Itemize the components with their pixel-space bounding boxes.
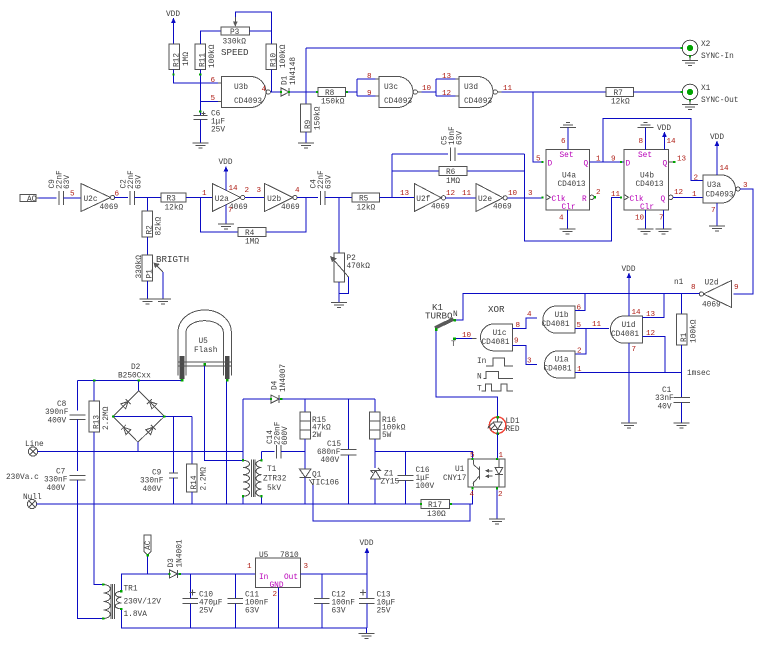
capacitor C13 xyxy=(359,574,396,628)
svg-text:CD4081: CD4081 xyxy=(611,331,639,339)
svg-text:U2e: U2e xyxy=(478,196,492,204)
potentiometer P2 (rheostat) xyxy=(330,253,370,282)
feedback resistor R4 loop wire xyxy=(200,198,306,233)
ground (U2a) xyxy=(218,224,234,229)
svg-text:1μF: 1μF xyxy=(416,475,430,483)
svg-text:C1: C1 xyxy=(662,387,672,395)
svg-text:14: 14 xyxy=(632,309,642,317)
wire to X2 xyxy=(306,47,682,49)
power flag VDD (U3a pin14) xyxy=(710,134,724,175)
svg-text:T: T xyxy=(451,341,456,349)
capacitor C10 xyxy=(183,574,223,628)
waveform legend N xyxy=(477,372,513,382)
zener Z1 xyxy=(371,452,400,505)
svg-text:R13: R13 xyxy=(94,415,102,429)
capacitor C12 xyxy=(314,574,355,628)
svg-text:Set: Set xyxy=(638,152,652,160)
svg-text:150kΩ: 150kΩ xyxy=(321,99,345,107)
connector X2 SYNC-In xyxy=(681,40,734,61)
potentiometer P3 xyxy=(221,17,250,47)
svg-text:470kΩ: 470kΩ xyxy=(347,263,371,271)
wire bridge bottom to Line rail xyxy=(137,442,139,451)
ground (U3a) xyxy=(709,226,725,231)
svg-text:4069: 4069 xyxy=(281,204,300,212)
svg-text:D2: D2 xyxy=(131,364,141,372)
svg-text:5kV: 5kV xyxy=(267,485,281,493)
svg-text:R1: R1 xyxy=(681,332,689,342)
net tag AC (vertical) xyxy=(144,535,153,574)
svg-text:C7: C7 xyxy=(56,469,66,477)
wire U1c pin8 to U1b out xyxy=(512,318,537,329)
svg-text:1MΩ: 1MΩ xyxy=(183,52,191,66)
resistor R5 xyxy=(352,193,380,213)
ground (U4a Clr) xyxy=(560,229,576,234)
ground (C1) xyxy=(674,423,690,428)
svg-text:CD4093: CD4093 xyxy=(464,98,492,106)
capacitor C9 (22nF input) xyxy=(49,170,72,205)
svg-text:Set: Set xyxy=(560,152,574,160)
svg-text:100kΩ: 100kΩ xyxy=(209,44,217,68)
svg-text:230Va.c: 230Va.c xyxy=(6,474,39,482)
svg-text:U4b: U4b xyxy=(640,173,654,181)
svg-text:6: 6 xyxy=(577,305,582,313)
ground above U4a Set (inverted) xyxy=(560,123,576,150)
svg-text:6: 6 xyxy=(211,77,216,85)
transformer T1 xyxy=(243,460,287,498)
svg-text:14: 14 xyxy=(667,138,677,146)
svg-text:Z1: Z1 xyxy=(384,471,394,479)
wire D3 to U5 regulator input xyxy=(178,573,256,575)
wire U2c out to C2 xyxy=(115,197,128,199)
svg-text:7: 7 xyxy=(632,346,637,354)
wire P3 right terminal xyxy=(250,30,272,32)
green pin dots (misc) xyxy=(93,74,622,620)
wire P2 bottom / wiper to ground xyxy=(339,277,349,303)
svg-text:TIC106: TIC106 xyxy=(311,480,339,488)
svg-text:2W: 2W xyxy=(312,432,322,440)
potentiometer P1 xyxy=(136,255,163,281)
svg-text:13: 13 xyxy=(677,156,687,164)
wire C6 to ground xyxy=(199,120,201,144)
svg-text:ZTR32: ZTR32 xyxy=(263,476,287,484)
svg-text:LD1: LD1 xyxy=(506,418,520,426)
svg-text:10μF: 10μF xyxy=(377,600,396,608)
svg-text:VDD: VDD xyxy=(657,125,671,133)
svg-text:330nF: 330nF xyxy=(140,478,164,486)
svg-text:33nF: 33nF xyxy=(655,395,674,403)
svg-text:6: 6 xyxy=(561,138,566,146)
wire U1c pin9 to U1a out xyxy=(512,346,537,365)
svg-text:12: 12 xyxy=(674,189,684,197)
wire P2 column xyxy=(338,198,340,254)
svg-text:3: 3 xyxy=(304,563,309,571)
terminal Line xyxy=(25,441,44,456)
nand gate U3d xyxy=(456,77,502,108)
svg-text:14: 14 xyxy=(229,185,239,193)
resistor R3 xyxy=(161,193,186,213)
svg-text:330nF: 330nF xyxy=(44,477,68,485)
svg-text:U2b: U2b xyxy=(267,196,281,204)
svg-text:C6: C6 xyxy=(211,111,221,119)
ground (U4b pin7) xyxy=(656,229,672,234)
wire C4 to R5 with P2 tap xyxy=(325,197,352,199)
wire U4b Qbar to U3a pin1 xyxy=(673,196,703,198)
svg-text:3: 3 xyxy=(527,358,532,366)
wire LD1 to optocoupler pin1 xyxy=(497,434,499,460)
ground (P1 wiper) xyxy=(155,299,171,304)
svg-text:11: 11 xyxy=(611,191,621,199)
nand gate U3b xyxy=(218,77,270,108)
svg-text:12: 12 xyxy=(442,90,452,98)
wire R17 right to opto pin4 xyxy=(450,490,473,504)
svg-text:RED: RED xyxy=(506,426,520,434)
svg-text:2: 2 xyxy=(498,491,503,499)
svg-text:11: 11 xyxy=(462,190,472,198)
capacitor C16 xyxy=(398,452,435,505)
wire Null rail xyxy=(37,503,421,505)
svg-text:63V: 63V xyxy=(326,175,334,189)
resistor R11 xyxy=(195,44,217,70)
stub U4b Q pin13 xyxy=(669,161,676,163)
wire K1 common down and to LD1 xyxy=(436,331,497,417)
svg-text:13: 13 xyxy=(442,73,452,81)
svg-text:CD4081: CD4081 xyxy=(542,321,570,329)
resistor R2 xyxy=(142,198,164,238)
svg-text:4: 4 xyxy=(295,187,300,195)
terminal Null xyxy=(23,494,42,509)
inverter U2a xyxy=(212,184,248,213)
svg-text:N: N xyxy=(453,311,458,319)
resistor R4 xyxy=(238,228,266,247)
power flag VDD (regulator output) xyxy=(360,540,374,574)
wire R9 to ground xyxy=(305,132,307,143)
wire U5 GND pin down xyxy=(278,587,280,627)
svg-text:SPEED: SPEED xyxy=(221,47,249,58)
flash tube U5 xyxy=(178,310,231,376)
bridge rectifier D2 outline xyxy=(113,391,164,443)
svg-text:R11: R11 xyxy=(200,53,208,67)
capacitor C2 xyxy=(120,170,143,205)
wire Line rail xyxy=(38,451,244,453)
inverter U2c xyxy=(81,184,119,213)
svg-text:130Ω: 130Ω xyxy=(427,511,446,519)
svg-text:U5: U5 xyxy=(259,552,269,560)
resistor R6 xyxy=(439,167,467,187)
svg-text:400V: 400V xyxy=(143,486,162,494)
wire R11 top to P3 left xyxy=(200,31,221,44)
svg-text:R4: R4 xyxy=(245,230,255,238)
svg-text:330kΩ: 330kΩ xyxy=(223,39,247,47)
svg-text:CD4093: CD4093 xyxy=(706,192,734,200)
svg-text:C9: C9 xyxy=(152,470,162,478)
svg-text:ZY15: ZY15 xyxy=(381,479,400,487)
svg-text:C16: C16 xyxy=(416,467,430,475)
wire U3a out down to U2d input xyxy=(734,189,754,294)
power flag VDD (top left) xyxy=(166,11,180,30)
svg-text:U1: U1 xyxy=(455,466,465,474)
svg-text:4: 4 xyxy=(262,86,267,94)
ground (opto) xyxy=(489,519,505,524)
svg-text:2.2MΩ: 2.2MΩ xyxy=(103,406,111,430)
svg-text:100kΩ: 100kΩ xyxy=(691,319,699,343)
svg-text:1MΩ: 1MΩ xyxy=(446,178,460,186)
svg-text:63V: 63V xyxy=(245,608,259,616)
wire U1d pin7 to ground xyxy=(628,343,630,423)
diode D1 xyxy=(281,57,298,97)
svg-text:U5: U5 xyxy=(199,338,209,346)
svg-text:12kΩ: 12kΩ xyxy=(165,205,184,213)
wire P1 bottom to ground xyxy=(146,281,148,299)
svg-text:Null: Null xyxy=(23,494,42,502)
svg-text:1N4007: 1N4007 xyxy=(280,364,288,392)
svg-text:Q1: Q1 xyxy=(312,472,322,480)
wire U3d out to R7 and down to U4a D xyxy=(502,92,607,162)
power flag VDD (U4b pin14) xyxy=(657,125,671,150)
svg-text:8: 8 xyxy=(367,73,372,81)
svg-text:14: 14 xyxy=(720,165,730,173)
svg-text:2: 2 xyxy=(245,187,250,195)
svg-text:U3a: U3a xyxy=(707,182,721,190)
ground (U1d pin7) xyxy=(621,423,637,428)
svg-text:Q: Q xyxy=(663,161,668,169)
svg-text:U2a: U2a xyxy=(215,196,229,204)
svg-text:CD4081: CD4081 xyxy=(544,366,572,374)
resistor R7 xyxy=(606,88,634,107)
svg-text:AC: AC xyxy=(27,196,37,204)
svg-text:n1: n1 xyxy=(674,279,684,287)
svg-text:Q: Q xyxy=(661,196,666,204)
svg-text:X1: X1 xyxy=(701,85,711,93)
wire bridge AC horizontal xyxy=(113,416,192,418)
bridge diode top-right xyxy=(147,399,157,409)
svg-text:R10: R10 xyxy=(271,53,279,67)
capacitor C5 rail xyxy=(392,153,525,155)
resistor R12 xyxy=(169,44,191,70)
capacitor C4 xyxy=(311,170,334,205)
svg-text:1: 1 xyxy=(692,191,697,199)
capacitor C1 xyxy=(655,373,690,424)
wire T1 right bottom to Null xyxy=(261,496,263,504)
svg-text:25V: 25V xyxy=(199,608,213,616)
switch K1 TURBO xyxy=(425,302,458,331)
wire U3b pin5 row xyxy=(200,100,218,102)
wire U5 out rail xyxy=(300,573,367,575)
svg-text:TR1: TR1 xyxy=(124,586,138,594)
optocoupler U1 CNY17 xyxy=(443,459,505,487)
svg-text:4069: 4069 xyxy=(431,204,450,212)
wire T1 left bottom to Null xyxy=(242,496,244,504)
inverter U2f xyxy=(414,184,450,212)
oscillator left vertical wire xyxy=(391,154,393,198)
svg-text:U4a: U4a xyxy=(562,173,576,181)
svg-text:1msec: 1msec xyxy=(687,370,711,378)
svg-text:C13: C13 xyxy=(377,592,391,600)
wire U2b out to C4 xyxy=(297,197,318,199)
ground (X1) xyxy=(682,101,698,110)
bridge diode bottom-left xyxy=(121,425,131,435)
resistor R15 xyxy=(300,399,331,469)
wire R7 to X1 xyxy=(634,91,682,93)
svg-text:1: 1 xyxy=(247,563,252,571)
and gate U1d (mirrored) xyxy=(610,316,642,343)
ground (X2) xyxy=(682,57,698,66)
svg-text:U1d: U1d xyxy=(622,322,636,330)
wire R3 to U2a input xyxy=(186,197,212,199)
svg-text:470μF: 470μF xyxy=(199,600,223,608)
wire U3a pin7 to ground xyxy=(716,203,718,226)
svg-text:100nF: 100nF xyxy=(245,600,269,608)
svg-text:2: 2 xyxy=(694,175,699,183)
wire U4a Clr to ground xyxy=(567,210,569,229)
thyristor Q1 TIC106 xyxy=(300,452,340,505)
svg-text:P2: P2 xyxy=(347,255,357,263)
svg-text:1N4148: 1N4148 xyxy=(290,57,298,85)
wire R12 to U3b pin6 xyxy=(174,70,219,84)
svg-text:U2c: U2c xyxy=(84,196,98,204)
svg-text:10: 10 xyxy=(508,190,518,198)
diode D3 xyxy=(168,539,185,578)
svg-text:600V: 600V xyxy=(282,426,290,445)
svg-text:3: 3 xyxy=(257,187,262,195)
wire secondary ground rail xyxy=(121,609,366,628)
diode D4 xyxy=(243,364,375,404)
svg-text:VDD: VDD xyxy=(622,266,636,274)
svg-text:U3c: U3c xyxy=(384,84,398,92)
svg-text:40V: 40V xyxy=(658,404,672,412)
voltage regulator U5 7810 xyxy=(256,552,301,590)
wire C2 to node, R3 xyxy=(135,197,161,199)
capacitor C5 xyxy=(442,126,465,161)
svg-text:R3: R3 xyxy=(167,196,177,204)
svg-text:25V: 25V xyxy=(377,608,391,616)
svg-text:D: D xyxy=(548,161,553,169)
ground (U4b Clr) xyxy=(638,229,654,234)
svg-text:U3b: U3b xyxy=(234,84,248,92)
inverter U2e xyxy=(476,184,512,212)
ground (P2) xyxy=(331,303,347,308)
wire R11 bottom to pin5 node and C6 xyxy=(199,70,201,113)
svg-text:10: 10 xyxy=(462,332,472,340)
resistor R6 rail xyxy=(392,170,525,172)
svg-text:Clr: Clr xyxy=(562,204,576,212)
svg-text:2: 2 xyxy=(577,348,582,356)
svg-text:9: 9 xyxy=(514,338,519,346)
svg-text:8: 8 xyxy=(639,138,644,146)
wire U2a pin7 to ground xyxy=(225,205,227,225)
svg-text:VDD: VDD xyxy=(710,134,724,142)
svg-text:X2: X2 xyxy=(701,41,711,49)
wire U1d out to U1b pin5 / U1a pin2 xyxy=(575,329,609,355)
label D2 xyxy=(118,364,151,381)
svg-text:U1b: U1b xyxy=(555,312,569,320)
wire R16/Z1 node rail to opto pin5 xyxy=(375,452,473,460)
svg-text:3: 3 xyxy=(528,190,533,198)
svg-text:7: 7 xyxy=(228,207,233,215)
svg-text:D: D xyxy=(626,161,631,169)
svg-text:63V: 63V xyxy=(135,175,143,189)
svg-text:1: 1 xyxy=(202,190,207,198)
svg-text:63V: 63V xyxy=(332,608,346,616)
resistor R17 xyxy=(421,500,450,520)
svg-text:7810: 7810 xyxy=(280,552,299,560)
svg-text:7: 7 xyxy=(711,207,716,215)
svg-text:C8: C8 xyxy=(57,401,67,409)
wire U2e out to U4a Clk xyxy=(507,197,542,199)
svg-text:P1: P1 xyxy=(147,269,155,279)
svg-text:1μF: 1μF xyxy=(211,119,225,127)
svg-text:2: 2 xyxy=(273,591,278,599)
svg-text:T: T xyxy=(477,386,482,394)
svg-text:4069: 4069 xyxy=(100,204,119,212)
svg-text:100V: 100V xyxy=(416,483,435,491)
wire trigger to T1 xyxy=(205,366,244,461)
svg-text:12kΩ: 12kΩ xyxy=(357,205,376,213)
nand gate U3c xyxy=(376,77,422,108)
flash electrodes xyxy=(181,356,229,382)
svg-text:10: 10 xyxy=(635,215,645,223)
wire Q1 gate loop xyxy=(313,485,470,521)
resistor R1 xyxy=(677,294,699,373)
svg-text:SYNC-In: SYNC-In xyxy=(701,53,734,61)
ground above U4b Set (inverted) xyxy=(638,123,654,150)
ground (C6) xyxy=(192,143,208,148)
svg-text:SYNC-Out: SYNC-Out xyxy=(701,97,738,105)
svg-text:5: 5 xyxy=(536,156,541,164)
svg-text:Flash: Flash xyxy=(194,347,217,355)
svg-text:U2d: U2d xyxy=(705,280,719,288)
stub T terminal to U1c out xyxy=(453,337,476,340)
svg-text:63V: 63V xyxy=(457,131,465,145)
svg-text:230V/12V: 230V/12V xyxy=(124,599,162,607)
power flag VDD (U1d pin14) xyxy=(622,266,636,316)
svg-text:5W: 5W xyxy=(382,432,392,440)
svg-text:U2f: U2f xyxy=(416,196,430,204)
ground (PSU rail) xyxy=(359,628,375,639)
svg-text:12: 12 xyxy=(446,190,456,198)
svg-text:VDD: VDD xyxy=(166,11,180,19)
svg-text:11: 11 xyxy=(592,321,602,329)
svg-text:400V: 400V xyxy=(48,418,67,426)
wire R2 to P1 xyxy=(146,237,148,255)
svg-text:T1: T1 xyxy=(267,466,277,474)
svg-text:BRIGTH: BRIGTH xyxy=(156,254,189,265)
wire U1b pin6 up to n1 xyxy=(575,294,585,311)
svg-text:D4: D4 xyxy=(272,380,280,390)
svg-text:R: R xyxy=(582,196,587,204)
wire R8 to U3c inputs xyxy=(346,79,376,96)
svg-text:330kΩ: 330kΩ xyxy=(136,255,144,279)
LED LD1 xyxy=(488,416,520,435)
waveform legend In xyxy=(477,358,513,366)
svg-text:D1: D1 xyxy=(282,75,290,85)
wire U4b pin7 to ground xyxy=(663,210,665,229)
svg-text:4069: 4069 xyxy=(493,204,512,212)
waveform legend T xyxy=(477,384,513,394)
svg-text:C10: C10 xyxy=(199,592,213,600)
and gate U1a (mirrored) xyxy=(544,351,575,378)
svg-text:12kΩ: 12kΩ xyxy=(611,99,630,107)
wire U2f out to U2e xyxy=(446,197,476,199)
svg-text:CNY17: CNY17 xyxy=(443,475,467,483)
svg-text:2: 2 xyxy=(596,189,601,197)
svg-text:VDD: VDD xyxy=(219,159,233,167)
wire U4a Q to U4b D and feedback up xyxy=(590,119,704,181)
resistor R9 xyxy=(301,104,323,132)
nand gate U3a xyxy=(703,175,740,203)
svg-text:63V: 63V xyxy=(64,175,72,189)
svg-text:150kΩ: 150kΩ xyxy=(315,106,323,130)
and gate U1b (mirrored) xyxy=(542,306,575,333)
